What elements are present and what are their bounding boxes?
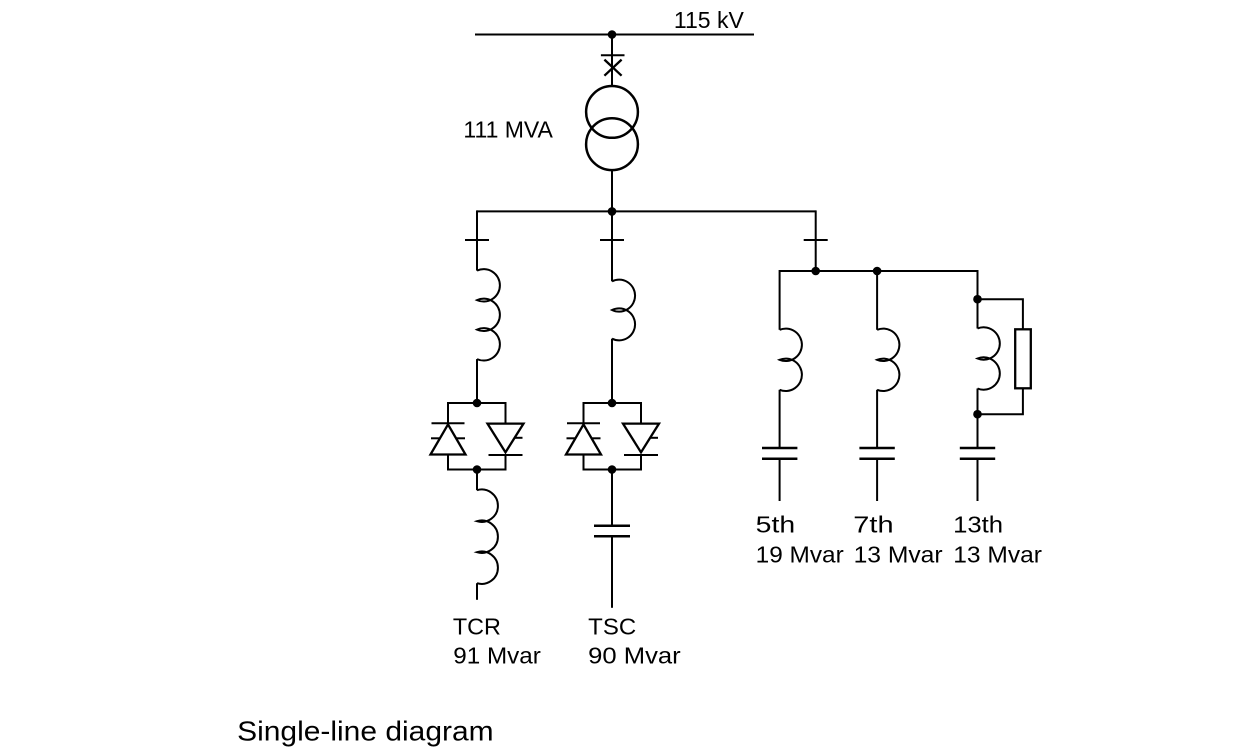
wire: valve to TSC capacitor [611, 470, 613, 526]
svg-text:111 MVA: 111 MVA [463, 117, 553, 143]
wire: 7th reactor to capacitor [876, 390, 878, 448]
thyristor V1 series tick left [431, 437, 440, 439]
svg-text:91 Mvar: 91 Mvar [453, 643, 541, 669]
capacitor C2 (5th filter) plate 2 [762, 458, 797, 461]
reactor L6 (13th filter) [978, 327, 1000, 389]
node: 13th resistor top junction [973, 295, 982, 304]
capacitor C2 (5th filter) plate 1 [762, 447, 797, 450]
wire: filter feeder drop [815, 210, 817, 271]
svg-text:90 Mvar: 90 Mvar [588, 643, 681, 669]
wire: HV bus to transformer [611, 35, 613, 87]
wire: TCR reactor tail [476, 583, 478, 600]
node: MV bus center [608, 207, 617, 216]
wire: 5th reactor to capacitor [779, 390, 781, 448]
reactor L1 (TCR phase reactor) [477, 269, 500, 360]
capacitor C4 (13th filter) plate 2 [960, 458, 995, 461]
breaker tick TSC [600, 239, 624, 241]
svg-text:Single-line diagram: Single-line diagram [237, 715, 494, 746]
svg-text:19 Mvar: 19 Mvar [756, 542, 844, 568]
breaker tick filters [804, 239, 828, 241]
capacitor C1 (TSC) plate 1 [594, 525, 630, 528]
115 kV bus [475, 34, 754, 36]
wire: TSC branch drop [611, 211, 613, 281]
MV bus [477, 210, 816, 212]
wire: 5th filter drop [779, 270, 781, 330]
thyristor V4 cathode bar [624, 454, 658, 456]
wire: 5th filter tail [779, 459, 781, 501]
wire: valve to TCR reactor [476, 470, 478, 491]
reactor L3 (TSC damping reactor) [612, 280, 635, 341]
wire: 7th filter drop [876, 271, 878, 330]
thyristor V2 (down) triangle [488, 424, 524, 453]
wire: 7th filter tail [876, 459, 878, 501]
thyristor V3 (up) triangle [566, 424, 601, 454]
svg-text:115 kV: 115 kV [674, 7, 745, 33]
capacitor C4 (13th filter) plate 1 [960, 447, 995, 450]
disconnector tick [601, 54, 625, 56]
node: 13th resistor bottom junction [973, 410, 982, 419]
thyristor V4 series tick [651, 437, 659, 439]
wire: TSC capacitor tail [611, 536, 613, 608]
node: TSC valve top [608, 399, 617, 408]
node: filter feeder junction [811, 267, 820, 276]
wire: 13th reactor to resistor junction [977, 389, 979, 449]
thyristor V2 cathode bar [489, 454, 523, 456]
wire: resistor branch top [978, 299, 1023, 329]
svg-text:13th: 13th [953, 511, 1003, 537]
wire: 13th filter drop [977, 270, 979, 329]
svg-text:13 Mvar: 13 Mvar [854, 542, 943, 568]
transformer T1 winding 2 [586, 118, 638, 170]
node: TCR valve top [473, 399, 482, 408]
transformer T1 winding 1 [586, 86, 638, 138]
wire: reactor to TCR valve [476, 359, 478, 403]
wire: transformer to MV bus [611, 170, 613, 211]
filter bus [780, 270, 978, 272]
wire: resistor branch bottom [978, 388, 1023, 414]
reactor L5 (7th filter) [877, 329, 899, 391]
capacitor C3 (7th filter) plate 1 [859, 447, 894, 450]
thyristor V3 (up) cathode bar [567, 422, 600, 424]
wire: TCR branch drop [476, 210, 478, 270]
capacitor C3 (7th filter) plate 2 [859, 458, 894, 461]
thyristor V1 (up) triangle [431, 424, 466, 454]
svg-text:7th: 7th [853, 511, 893, 537]
thyristor V3 series tick left [567, 437, 576, 439]
node: HV bus tap [608, 30, 617, 39]
thyristor V1 series tick right [457, 437, 466, 439]
thyristor V4 (down) triangle [623, 424, 659, 453]
thyristor V2 series tick [515, 437, 523, 439]
reactor L4 (5th filter) [780, 329, 802, 391]
svg-text:13 Mvar: 13 Mvar [953, 542, 1042, 568]
capacitor C1 (TSC) plate 2 [594, 535, 630, 538]
TCR valve frame [448, 403, 506, 470]
breaker X [604, 60, 621, 76]
node: TCR valve bottom [473, 465, 482, 474]
svg-text:5th: 5th [756, 511, 796, 537]
svg-text:TSC: TSC [588, 614, 636, 640]
thyristor V3 series tick right [592, 437, 601, 439]
svg-text:TCR: TCR [453, 614, 501, 640]
breaker tick TCR [465, 239, 489, 241]
wire: 13th filter tail [977, 459, 979, 501]
node: 7th branch junction [873, 267, 882, 276]
wire: reactor to TSC valve [611, 339, 613, 403]
thyristor V1 (up) cathode bar [432, 422, 465, 424]
node: TSC valve bottom [608, 465, 617, 474]
TSC valve frame [584, 403, 642, 470]
resistor R1 (13th filter damping) [1015, 329, 1031, 388]
reactor L2 (TCR main reactor) [477, 490, 498, 584]
